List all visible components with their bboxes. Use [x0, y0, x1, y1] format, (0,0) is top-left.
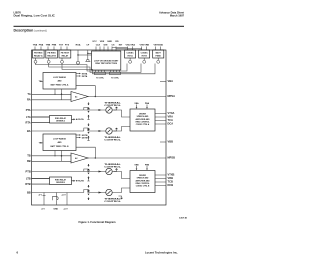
svg-text:PBB: PBB: [145, 164, 150, 166]
svg-text:RGA: RGA: [76, 43, 81, 46]
relay box B: [32, 177, 74, 185]
svg-text:LTB: LTB: [26, 176, 31, 180]
detector output arrows B: [76, 135, 79, 138]
svg-text:GND: GND: [53, 208, 58, 210]
svg-text:VBB: VBB: [134, 164, 139, 166]
svg-text:+5 V: +5 V: [61, 194, 66, 196]
svg-text:FB TEST: FB TEST: [61, 53, 70, 55]
diode stack A2: [88, 123, 90, 138]
assembly rail A2: [32, 128, 106, 131]
driver B right stubs: [155, 175, 166, 186]
svg-text:RD: RD: [115, 41, 119, 43]
right pin labels A: [168, 79, 176, 126]
left pin labels A: [26, 92, 31, 133]
driver B top pins: [137, 166, 148, 169]
svg-text:Figure 1. Functional Diagram: Figure 1. Functional Diagram: [78, 220, 116, 224]
svg-text:CONTROL: CONTROL: [104, 201, 122, 203]
return symbol A2: [114, 128, 118, 131]
svg-text:TO CTRL: TO CTRL: [96, 78, 105, 80]
svg-text:VRA: VRA: [168, 115, 174, 119]
rail RA: [32, 99, 72, 101]
op-amp A output to right edge: [88, 96, 166, 98]
big box SLIC outline: [32, 50, 167, 205]
svg-text:GND: GND: [107, 41, 112, 43]
svg-text:BATT FEED CTRL B: BATT FEED CTRL B: [51, 145, 70, 148]
svg-text:DRIVER A: DRIVER A: [56, 120, 65, 123]
svg-text:DIN: DIN: [104, 44, 108, 46]
loop range box B: [43, 134, 76, 151]
middle box bottom bracket group 2: [109, 70, 120, 75]
svg-text:+5 V: +5 V: [63, 208, 68, 210]
svg-text:A1: A1: [75, 96, 77, 99]
ticks right group: [128, 47, 161, 51]
svg-text:VBA: VBA: [168, 79, 174, 83]
loop range box A: [43, 73, 76, 90]
svg-text:SPEECH AND: SPEECH AND: [137, 115, 149, 118]
current source A2: [106, 128, 112, 134]
right pin labels B: [168, 140, 176, 188]
svg-text:LOOP RANGE: LOOP RANGE: [53, 138, 66, 141]
svg-text:LOOP OR GROUND START: LOOP OR GROUND START: [94, 59, 119, 62]
svg-text:RLYA: RLYA: [78, 118, 84, 121]
svg-text:RING TRIP DETECTORS: RING TRIP DETECTORS: [95, 63, 117, 65]
svg-text:Dual Ringing, Low Cost SLIC: Dual Ringing, Low Cost SLIC: [14, 14, 56, 18]
svg-text:RING RELAY: RING RELAY: [55, 117, 67, 120]
left pin labels B: [25, 154, 30, 195]
rail TA: [32, 94, 89, 110]
svg-text:SPEECH AND: SPEECH AND: [137, 177, 149, 180]
svg-text:AND: AND: [57, 80, 62, 83]
relay box A: [32, 116, 74, 124]
svg-text:PBA: PBA: [145, 102, 150, 105]
svg-text:RA: RA: [27, 98, 31, 102]
svg-text:CLK: CLK: [96, 44, 101, 46]
svg-text:CS: CS: [111, 44, 115, 46]
terminal box L2: [46, 50, 58, 58]
svg-text:VRA: VRA: [130, 43, 135, 46]
assembly rail B2: [32, 190, 106, 193]
current source B1: [106, 168, 112, 174]
rail PTB: [32, 171, 89, 173]
svg-text:TRB: TRB: [46, 44, 51, 46]
svg-text:FRA: FRA: [39, 43, 44, 46]
svg-text:AMPLIFIER AND: AMPLIFIER AND: [135, 179, 150, 182]
svg-text:RB: RB: [27, 159, 31, 163]
detector output arrows A: [76, 74, 79, 77]
wire A2 to driver box: [112, 127, 130, 132]
svg-text:PTA: PTA: [26, 108, 31, 112]
svg-text:VRB: VRB: [168, 176, 174, 180]
header rule: [14, 26, 185, 27]
diode stack B2: [88, 185, 90, 200]
svg-text:RELAY A: RELAY A: [34, 54, 43, 57]
wire A1 to driver box: [112, 110, 130, 117]
svg-text:CODEC: CODEC: [126, 53, 134, 55]
micro text inside terminal boxes: [34, 52, 162, 58]
svg-text:AND: AND: [57, 141, 62, 144]
svg-text:VBB: VBB: [168, 140, 174, 144]
terminal box R1: [125, 50, 136, 58]
top pin labels row: [33, 41, 164, 46]
cap mark on stub: [43, 195, 46, 197]
feedback A: [76, 86, 95, 97]
right stub VBA: [160, 81, 166, 83]
rail RB: [32, 160, 72, 162]
terminal box R3: [153, 50, 164, 58]
svg-text:TRA: TRA: [33, 43, 38, 46]
terminal box R2: [139, 50, 150, 58]
svg-text:RLYB: RLYB: [78, 181, 84, 183]
feedback B: [76, 147, 95, 158]
curl A1: [84, 108, 89, 111]
stubs from box A to rails: [55, 89, 62, 100]
svg-text:NSTB: NSTB: [82, 135, 88, 137]
curl B1: [84, 169, 89, 172]
svg-text:INT B: INT B: [142, 55, 148, 57]
cap drop with ground caps: [88, 50, 92, 60]
driver box A: [130, 109, 155, 131]
svg-text:VBA: VBA: [134, 102, 139, 105]
svg-text:MPSA: MPSA: [168, 94, 176, 98]
svg-text:CODEC CTRL A: CODEC CTRL A: [136, 123, 150, 126]
svg-text:TST: TST: [59, 44, 64, 46]
svg-text:CODEC: CODEC: [141, 53, 149, 55]
svg-text:VEE: VEE: [100, 41, 105, 43]
elbow links middle to right boxes: [112, 48, 142, 49]
svg-text:Description (continued): Description (continued): [14, 29, 47, 33]
driver box B: [130, 171, 155, 193]
diode stack A1: [88, 102, 90, 117]
svg-text:VCC: VCC: [92, 41, 97, 43]
svg-text:A2: A2: [75, 157, 77, 160]
arrow on rail A2: [99, 130, 102, 132]
svg-text:BATT: BATT: [156, 52, 162, 55]
curl A2: [84, 128, 89, 131]
bus stair wires left circles to right circles: [36, 64, 156, 74]
return symbol B1: [114, 169, 118, 172]
curl on middle stub: [52, 197, 58, 201]
arrow on rail B1: [99, 171, 102, 173]
svg-text:BATT FEED CTRL A: BATT FEED CTRL A: [51, 84, 69, 87]
svg-text:PTB: PTB: [26, 169, 31, 173]
svg-text:BA: BA: [27, 129, 31, 133]
bottom power stubs: [43, 193, 68, 206]
svg-text:INT A: INT A: [128, 54, 134, 57]
svg-text:BGD: BGD: [158, 44, 163, 46]
return symbol B2: [119, 196, 123, 199]
svg-text:VTXA: VTXA: [168, 111, 175, 115]
svg-text:RTA: RTA: [26, 120, 31, 124]
svg-text:FRB: FRB: [52, 44, 57, 46]
svg-text:FB RING: FB RING: [34, 53, 43, 55]
bottom pin labels above: [38, 194, 66, 196]
middle box ringing detector: [92, 51, 121, 70]
curl B2: [84, 190, 89, 193]
svg-text:RING RELAY: RING RELAY: [55, 178, 67, 181]
op-amp A: [71, 92, 88, 102]
svg-text:DCA: DCA: [168, 122, 174, 126]
svg-text:MPSB: MPSB: [168, 156, 176, 160]
svg-text:-5 V: -5 V: [41, 208, 45, 210]
svg-text:BB: BB: [27, 190, 31, 194]
stubs from box B to rails: [55, 151, 62, 162]
svg-text:TO CTRL: TO CTRL: [111, 78, 120, 80]
return symbol A1: [114, 107, 118, 110]
svg-text:INT: INT: [119, 44, 123, 46]
svg-text:CONTROL: CONTROL: [104, 140, 122, 142]
svg-text:CF: CF: [86, 44, 90, 46]
svg-text:TB: TB: [27, 154, 31, 158]
svg-text:DRIVER B: DRIVER B: [56, 182, 65, 184]
middle box bottom bracket group 1: [94, 70, 105, 75]
svg-text:AMPLIFIER AND: AMPLIFIER AND: [135, 118, 150, 121]
terminal box L3: [59, 50, 71, 58]
diode stack B1: [88, 164, 90, 179]
svg-text:LOOP RANGE: LOOP RANGE: [53, 76, 66, 79]
op-amp B: [71, 153, 88, 163]
svg-text:CODEC CTRL B: CODEC CTRL B: [136, 186, 150, 188]
svg-text:RTB: RTB: [25, 182, 30, 186]
svg-text:DCB: DCB: [168, 183, 174, 187]
op-amp B output to right edge: [88, 157, 166, 159]
svg-text:FEED: FEED: [156, 55, 162, 57]
svg-text:RELAY B: RELAY B: [47, 54, 56, 57]
svg-text:CONTROL: CONTROL: [104, 105, 122, 107]
svg-text:NSTA: NSTA: [82, 72, 88, 75]
current source A1: [106, 107, 112, 113]
svg-text:FTS: FTS: [65, 44, 70, 46]
svg-text:TCB: TCB: [168, 180, 173, 184]
rail PTA: [32, 109, 89, 111]
svg-text:FB RING: FB RING: [47, 53, 56, 55]
rail TB: [32, 156, 89, 172]
svg-text:March 1997: March 1997: [170, 13, 185, 17]
svg-text:5-8576 (F): 5-8576 (F): [179, 217, 187, 219]
svg-text:6: 6: [17, 251, 19, 255]
terminal pin ticks top: [35, 47, 161, 52]
driver A top pins: [137, 105, 148, 108]
ring generator drop with pin circle: [77, 50, 92, 64]
wire B2 to driver box: [112, 188, 130, 193]
current source B2: [106, 189, 112, 195]
terminal box L1: [33, 50, 164, 58]
pin circles under terminal boxes: [34, 58, 160, 63]
svg-text:TA: TA: [27, 92, 30, 96]
ticks left group: [35, 47, 67, 51]
ticks middle box: [96, 47, 116, 52]
right stub VBB: [160, 141, 166, 143]
assembly rail A1: [84, 108, 106, 111]
assembly rail B1: [84, 169, 106, 172]
svg-text:DETA: DETA: [82, 75, 88, 78]
bottom pin labels below: [41, 208, 68, 210]
svg-text:LTA: LTA: [26, 115, 31, 119]
svg-text:CONTROL: CONTROL: [104, 167, 122, 169]
wire B1 to driver box: [112, 172, 130, 179]
svg-text:VRB: VRB: [144, 44, 149, 46]
svg-text:VTXB: VTXB: [168, 173, 175, 177]
svg-text:DETB: DETB: [82, 138, 88, 140]
svg-text:TCA: TCA: [168, 118, 173, 122]
arrow on rail B2: [99, 192, 102, 194]
svg-text:-5 V: -5 V: [38, 194, 42, 196]
svg-text:RELAY: RELAY: [62, 54, 69, 57]
arrow on rail A1: [99, 109, 102, 111]
svg-text:Lucent Technologies Inc.: Lucent Technologies Inc.: [145, 250, 178, 254]
driver A right stubs: [155, 114, 166, 125]
